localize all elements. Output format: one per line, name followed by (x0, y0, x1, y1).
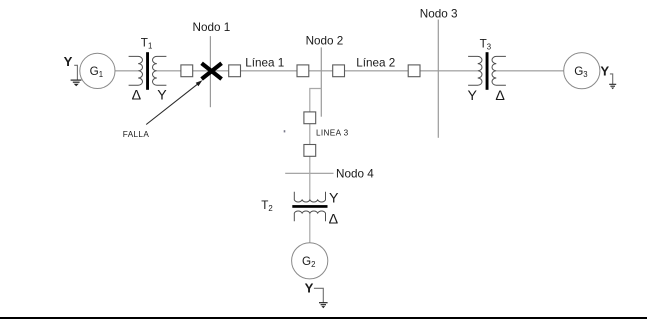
fault X mark at Nodo 1 (202, 63, 222, 79)
G3 wye grounding symbol (600, 63, 616, 89)
breaker square S1 (181, 65, 193, 77)
node bus Nodo 1 (209, 36, 211, 107)
wire: breaker S1 to breaker S2 through Nodo 1 (fault point) (187, 70, 235, 72)
svg-text:Δ: Δ (495, 88, 505, 104)
svg-text:Línea 1: Línea 1 (245, 57, 284, 70)
wire: T3 right winding to G3 (496, 70, 564, 72)
breaker square S3 (297, 65, 309, 77)
svg-text:T1: T1 (141, 37, 152, 51)
svg-text:Δ: Δ (132, 87, 142, 103)
svg-text:Y: Y (157, 87, 167, 103)
G2 wye grounding symbol (305, 280, 328, 308)
svg-text:Y: Y (468, 88, 478, 104)
breaker square S4 (333, 65, 345, 77)
bottom frame line (0, 317, 647, 319)
wire: breaker S5 to T3 left winding through Nodo 3 (414, 70, 478, 72)
wire: Línea 1 span, breaker S2 to breaker S3 (235, 70, 303, 72)
svg-text:T3: T3 (480, 37, 491, 51)
breaker square S2 (229, 65, 241, 77)
wire: T1 right winding to breaker S1 (157, 70, 181, 72)
svg-text:Nodo 1: Nodo 1 (193, 21, 231, 34)
breaker square S6 (304, 112, 316, 124)
breaker square S5 (408, 65, 420, 77)
stray ink speck (284, 130, 286, 132)
breaker square S7 (304, 145, 316, 157)
fault leader arrow (146, 80, 202, 124)
svg-text:FALLA: FALLA (123, 130, 150, 139)
svg-text:Nodo 3: Nodo 3 (420, 7, 458, 20)
wire: Línea 3 branch from Nodo 2 bus down to T2 (310, 89, 322, 200)
svg-text:Nodo 4: Nodo 4 (336, 167, 374, 180)
svg-text:Y: Y (305, 280, 314, 295)
transformer T2 (wye-delta, vertical branch) (292, 192, 327, 221)
wire: T2 lower winding to G2 (309, 213, 311, 243)
wire: Línea 2 span, breaker S4 to breaker S5 (338, 70, 414, 72)
svg-text:Nodo 2: Nodo 2 (306, 35, 344, 48)
svg-text:LINEA 3: LINEA 3 (316, 129, 349, 138)
svg-text:Y: Y (600, 63, 609, 78)
node bus Nodo 3 (437, 20, 439, 138)
svg-text:T2: T2 (261, 199, 272, 213)
generator G1 (80, 53, 115, 88)
transformer T1 (delta-wye) (129, 52, 167, 90)
G1 wye grounding symbol (64, 54, 82, 86)
wire: breaker S3 to breaker S4 through Nodo 2 (303, 70, 338, 72)
transformer T3 (wye-delta) (468, 52, 506, 90)
svg-text:Y: Y (64, 54, 73, 69)
svg-text:Línea 2: Línea 2 (356, 57, 395, 70)
svg-text:Δ: Δ (329, 211, 339, 227)
wire: G1 to T1 left winding (115, 70, 138, 72)
svg-text:Y: Y (329, 191, 339, 207)
node bus Nodo 4 (285, 172, 333, 174)
generator G3 (564, 53, 600, 89)
node bus Nodo 2 (320, 47, 322, 116)
generator G2 (292, 243, 328, 279)
